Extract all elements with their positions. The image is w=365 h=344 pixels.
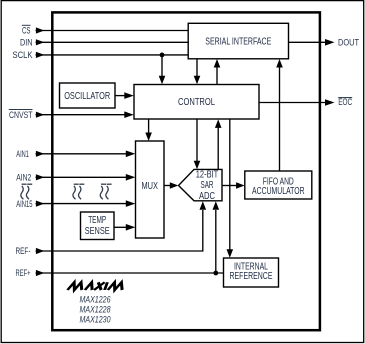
arrow ADC to CONTROL (215, 119, 222, 128)
svg-text:CONTROL: CONTROL (178, 97, 215, 108)
box FIFO AND ACCUMULATOR (245, 171, 312, 199)
arrow EOC (325, 99, 335, 106)
box MUX (136, 141, 165, 238)
wire AIN1 input (36, 153, 128, 155)
wire REF+ to ADC (215, 210, 217, 273)
svg-text:SENSE: SENSE (85, 226, 110, 237)
box ADC pentagon (179, 169, 223, 200)
wire ADC to FIFO (222, 185, 237, 187)
text labels inside boxes (64, 37, 304, 283)
wire SCLK input (36, 54, 189, 56)
box CONTROL (134, 85, 259, 120)
chip boundary U1 (52, 12, 320, 330)
wire DOUT output (289, 41, 327, 43)
wire AIN2 input (36, 176, 128, 178)
MAXIM logo (68, 282, 125, 290)
arrow AIN15 to MUX (126, 200, 136, 207)
box INTERNAL REFERENCE (224, 258, 279, 287)
svg-text:CS: CS (22, 26, 31, 36)
wire ADC to CONTROL (217, 127, 219, 170)
arrow AIN1 label (36, 151, 44, 157)
svg-text:AIN2: AIN2 (16, 173, 31, 183)
wire AIN15 input (36, 203, 128, 205)
wire CONTROL to SERIAL INTERFACE (216, 66, 218, 119)
arrow CONTROL to MUX (145, 133, 152, 142)
wire TEMP SENSE to MUX (114, 226, 128, 228)
node SCLK junction (160, 53, 165, 58)
arrow FIFO to SERIAL (276, 59, 283, 68)
arrow SCLK label (36, 52, 44, 58)
break mark right (omitted channels) (100, 184, 111, 199)
svg-text:REFERENCE: REFERENCE (230, 271, 273, 282)
break mark left (omitted channels) (21, 184, 32, 199)
svg-text:ADC: ADC (199, 191, 215, 202)
wire SERIAL INTERFACE to CONTROL (196, 59, 198, 77)
wire CONTROL to INTERNAL REFERENCE (229, 119, 231, 251)
break mark middle (omitted channels) (73, 184, 84, 199)
arrow AIN1 to MUX (126, 151, 136, 158)
box OSCILLATOR (60, 83, 116, 108)
arrow ADC to FIFO (236, 182, 245, 189)
svg-text:MAX1228: MAX1228 (80, 304, 112, 314)
svg-text:EOC: EOC (338, 97, 352, 107)
arrow REF+ label (36, 270, 44, 276)
svg-text:MAX1230: MAX1230 (80, 314, 112, 324)
arrow AIN2 to MUX (126, 174, 136, 181)
arrow CS label (36, 27, 44, 33)
wire CNVST input (36, 114, 127, 116)
arrow MUX to ADC (170, 182, 179, 189)
arrowheads (36, 27, 335, 276)
svg-text:OSCILLATOR: OSCILLATOR (64, 91, 110, 102)
arrow REF+ to ADC (213, 201, 220, 210)
svg-text:REF-: REF- (16, 246, 31, 256)
box TEMP SENSE (81, 212, 115, 240)
arrow CONTROL to SERIAL (214, 59, 221, 68)
svg-text:MUX: MUX (141, 181, 158, 192)
svg-text:ACCUMULATOR: ACCUMULATOR (252, 186, 305, 197)
arrow TEMP SENSE to MUX (126, 224, 136, 231)
wire CONTROL to ADC top (196, 119, 198, 162)
svg-text:DIN: DIN (20, 37, 33, 47)
svg-text:CNVST: CNVST (9, 110, 33, 120)
arrow REF- label (36, 248, 44, 254)
arrow SCLK to CONTROL (159, 76, 166, 85)
wire CS input (36, 30, 189, 32)
svg-text:REF+: REF+ (16, 268, 31, 278)
svg-text:SCLK: SCLK (13, 50, 33, 60)
arrow SERIAL to CONTROL (194, 76, 201, 85)
wire MUX to ADC (164, 185, 171, 187)
wire SCLK to CONTROL (161, 55, 163, 78)
arrow CNVST label (36, 112, 44, 118)
svg-text:MAX1226: MAX1226 (80, 294, 112, 304)
arrow CONTROL to INTERNAL REFERENCE (227, 249, 234, 257)
wire OSCILLATOR to CONTROL (115, 95, 126, 97)
wire DIN input (36, 41, 189, 43)
svg-text:AIN1: AIN1 (16, 149, 29, 159)
wire REF- input (36, 210, 203, 251)
svg-text:AIN15: AIN15 (16, 199, 32, 209)
wire FIFO to SERIAL INTERFACE (279, 66, 281, 171)
wire EOC output (259, 102, 326, 104)
arrow AIN2 label (36, 174, 44, 180)
arrow OSCILLATOR to CONTROL (124, 92, 134, 99)
svg-text:DOUT: DOUT (338, 37, 360, 47)
box SERIAL INTERFACE (188, 23, 288, 59)
svg-text:12-BIT: 12-BIT (196, 170, 219, 181)
svg-text:TEMP: TEMP (88, 215, 106, 226)
arrow DOUT (325, 39, 335, 46)
wire REF+ input (36, 272, 224, 274)
node REF+ junction (213, 271, 218, 276)
arrow DIN label (36, 39, 44, 45)
arrow CONTROL to ADC (194, 161, 201, 170)
arrow REF- to ADC (200, 201, 207, 210)
arrow CNVST to CONTROL (124, 111, 134, 118)
svg-text:SERIAL INTERFACE: SERIAL INTERFACE (205, 37, 271, 48)
svg-text:SAR: SAR (201, 180, 214, 191)
wire CONTROL to MUX (148, 119, 150, 134)
arrow AIN15 label (36, 201, 44, 207)
part number MAX1226 (80, 294, 112, 324)
